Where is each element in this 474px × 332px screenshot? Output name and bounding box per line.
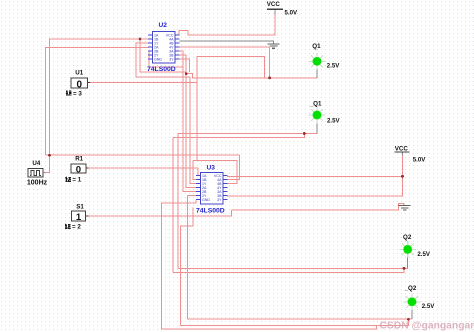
probe _Q1 xyxy=(309,107,326,124)
wire grey stem of probe _Q2 xyxy=(411,306,413,319)
wire U2 pin 4Y to probe Q1 xyxy=(180,47,270,78)
svg-text:2.5V: 2.5V xyxy=(417,251,430,258)
junction at U4 output and clock line xyxy=(48,154,51,157)
ground right xyxy=(399,206,411,210)
label _Q2 xyxy=(404,285,417,292)
svg-text:0: 0 xyxy=(76,165,81,176)
wire clock net vertical branch 1 (U4 to U2 pin 1B) xyxy=(50,39,149,155)
wire grey stem of probe Q2 xyxy=(407,254,409,269)
junction at right VCC rail and U3 VCC pin line xyxy=(401,175,404,178)
switch S1 digital constant box xyxy=(71,211,88,223)
value label 74LS00D of U2 xyxy=(147,66,176,73)
label Q2 xyxy=(403,234,412,241)
svg-text:GND: GND xyxy=(154,57,162,61)
wire U2 pin 3Y stub xyxy=(180,59,190,72)
value label 2.5V of Q1 xyxy=(327,63,340,70)
wire _Q2 second line merging at node xyxy=(181,319,409,325)
svg-text:2.5V: 2.5V xyxy=(327,63,340,70)
svg-text:U2: U2 xyxy=(159,22,168,29)
wire U3 VCC pin to right VCC rail xyxy=(227,175,403,177)
wire U2 second feed to probe Q1 xyxy=(197,56,317,78)
label R1 xyxy=(75,155,83,162)
wire vertical second _Q1 line to Q2 second line xyxy=(172,137,174,272)
wire branch to U3 pin 4A xyxy=(193,161,237,184)
value label 2.5V of _Q2 xyxy=(422,303,435,310)
svg-text:VCC: VCC xyxy=(395,145,409,152)
svg-text:2.5V: 2.5V xyxy=(327,118,340,125)
svg-text:5.0V: 5.0V xyxy=(285,10,298,17)
wire U2 VCC pin loop to top VCC rail xyxy=(179,14,275,35)
wire U2 pin 2B wrap nest line xyxy=(149,51,183,67)
probe Q2 xyxy=(399,241,416,258)
value label key = 1 xyxy=(65,177,81,184)
value label 2.5V of Q2 xyxy=(417,251,430,258)
junction at pin 3A vertical jog xyxy=(185,72,188,75)
wire grey U2 pin 4B to top ground xyxy=(180,41,274,44)
wire U2 pin 1Y wrap-around bundle xyxy=(136,43,190,77)
svg-text:GND: GND xyxy=(202,198,210,202)
wire grey stub below top VCC bar xyxy=(274,9,276,14)
junction at Q2 merge xyxy=(403,267,406,270)
wire right VCC rail down to U3 pin 3Y row xyxy=(227,155,403,196)
wire clock line down to U3 pin 4B xyxy=(227,155,239,179)
wire U2 pin 3B down to U3 pin 2B xyxy=(180,51,197,192)
svg-text:100Hz: 100Hz xyxy=(27,180,48,187)
value label 100Hz xyxy=(27,180,48,187)
svg-text:2.5V: 2.5V xyxy=(422,303,435,310)
svg-text:CSDN @gangangan_99: CSDN @gangangan_99 xyxy=(380,321,474,332)
junction at clock line and U2 pin 1B branch xyxy=(139,38,142,41)
switch U1 digital constant box xyxy=(71,78,90,91)
svg-text:U3: U3 xyxy=(207,164,216,171)
wire U3 pin 2Y wrap below chip to _Q2 second line vertical xyxy=(181,208,193,326)
value label key = 2 xyxy=(65,224,81,231)
label U2 xyxy=(159,22,168,29)
junction at Q1 line and feedback branch xyxy=(268,77,271,80)
wire U3 ground line to right ground xyxy=(232,204,405,210)
svg-text:3Y: 3Y xyxy=(169,57,174,61)
probe Q1 xyxy=(309,53,326,70)
wire Q2 main line xyxy=(178,267,408,269)
value label 74LS00D of U3 xyxy=(196,208,225,215)
svg-text:S1: S1 xyxy=(76,203,84,210)
label U1 xyxy=(75,70,83,77)
wire down to U3 pin 1Y xyxy=(190,77,196,184)
wire R1 output to U3 pin 1A xyxy=(88,168,198,175)
watermark CSDN xyxy=(380,321,474,332)
wire _Q1 main line xyxy=(178,133,317,135)
wire grey stem of right ground xyxy=(403,204,405,206)
svg-text:Q1: Q1 xyxy=(312,43,321,50)
svg-text:R1: R1 xyxy=(75,155,83,162)
label U3 xyxy=(207,164,216,171)
svg-text:_Q1: _Q1 xyxy=(309,101,322,108)
wire U2 pin 3A down to U3 pin 2A xyxy=(180,55,197,188)
power VCC right xyxy=(394,145,426,163)
label S1 xyxy=(76,203,84,210)
junction at _Q2 merge xyxy=(407,318,410,321)
wire U3 GND pin wrap down to third bottom line xyxy=(161,200,376,329)
wire jog from pin 3A vertical to Q1 line xyxy=(186,74,264,79)
wire U1 output to U2 pin 2B xyxy=(90,82,197,84)
svg-text:= 2: = 2 xyxy=(72,224,81,231)
op-amp U2 74LS00D chip body xyxy=(148,32,180,64)
clock source U4 xyxy=(28,168,45,177)
wire jog down to U3 pin 1B xyxy=(193,161,196,180)
value label key = 3 xyxy=(66,90,82,97)
wire S1 output to ground line xyxy=(88,210,231,216)
wire U2 area down to U3 pin 1B xyxy=(196,56,198,160)
value label 2.5V of _Q1 xyxy=(327,118,340,125)
label U4 xyxy=(32,160,40,167)
label Q1 xyxy=(312,43,321,50)
wire clock net horizontal to U3 area xyxy=(45,154,239,156)
svg-text:_Q2: _Q2 xyxy=(404,285,417,292)
svg-text:1: 1 xyxy=(76,212,82,223)
svg-text:= 3: = 3 xyxy=(73,90,82,97)
svg-text:74LS00D: 74LS00D xyxy=(147,66,176,73)
wire vertical _Q1 line to Q2 line xyxy=(177,134,179,269)
svg-text:74LS00D: 74LS00D xyxy=(196,208,225,215)
svg-text:U1: U1 xyxy=(75,70,83,77)
wire U3 pin 2Y down to _Q2 main line xyxy=(187,196,412,320)
wire grey stem of probe Q1 xyxy=(316,65,318,78)
svg-text:= 1: = 1 xyxy=(72,177,81,184)
svg-text:Q2: Q2 xyxy=(403,234,412,241)
svg-text:3Y: 3Y xyxy=(217,198,222,202)
op-amp U3 74LS00D chip body xyxy=(196,173,228,205)
svg-text:U4: U4 xyxy=(32,160,40,167)
svg-text:5.0V: 5.0V xyxy=(413,157,426,164)
probe _Q2 xyxy=(404,294,421,311)
wire _Q1 second line merging at node xyxy=(173,134,304,138)
svg-text:0: 0 xyxy=(77,80,83,91)
svg-text:VCC: VCC xyxy=(267,1,281,8)
wire Q2 second line merging at node xyxy=(173,268,404,272)
junction at _Q1 merge xyxy=(303,132,306,135)
wire clock branch down from node at (140,39) to U2 pin 3Y wrap xyxy=(140,39,186,72)
wire grey stub below right VCC bar xyxy=(402,152,404,155)
wire U4 output up to clock junction xyxy=(45,155,50,172)
wire grey stem of probe _Q1 xyxy=(316,119,318,133)
power VCC top xyxy=(267,1,298,17)
ground top xyxy=(268,44,280,48)
resistor R1 digital constant box xyxy=(71,164,89,176)
wire clock net vertical branch 2 (to U2 pin 2A) xyxy=(45,47,148,155)
label _Q1 xyxy=(309,101,322,108)
